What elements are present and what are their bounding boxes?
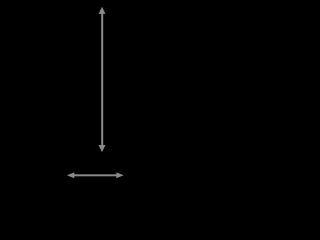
arrowhead bottom	[99, 145, 106, 152]
arrowhead left	[67, 172, 74, 178]
wire: vertical shaft	[101, 13, 103, 146]
vertical double-headed dimension arrow	[99, 7, 106, 152]
arrowhead right	[116, 172, 123, 178]
wire: horizontal shaft	[74, 174, 118, 176]
arrowhead top	[99, 7, 106, 14]
horizontal double-headed dimension arrow	[67, 172, 124, 178]
